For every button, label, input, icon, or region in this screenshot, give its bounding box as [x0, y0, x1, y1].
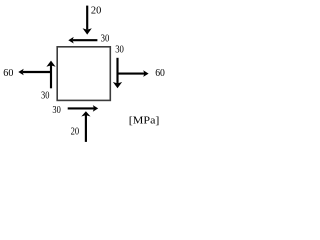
bottom shear arrow (right, 30 MPa) — [68, 105, 99, 112]
stress element square — [57, 47, 110, 101]
top shear arrow (left, 30 MPa) — [68, 37, 97, 44]
bottom normal stress arrow (up, 20 MPa) — [81, 111, 90, 142]
svg-text:20: 20 — [71, 125, 80, 137]
svg-text:60: 60 — [3, 67, 14, 79]
svg-text:60: 60 — [155, 67, 165, 79]
svg-text:30: 30 — [101, 33, 110, 45]
svg-text:30: 30 — [52, 104, 61, 116]
left normal stress arrow (left, 60 MPa) — [18, 69, 51, 76]
right normal stress arrow (right, 60 MPa) — [118, 70, 149, 77]
svg-text:30: 30 — [115, 44, 124, 56]
right shear arrow (down along right face, 30 MPa) — [113, 58, 122, 88]
top normal stress arrow (down, 20 MPa) — [83, 6, 92, 35]
svg-text:[MPa]: [MPa] — [129, 115, 160, 127]
left shear arrow (up along left face, 30 MPa) — [46, 61, 55, 89]
svg-text:30: 30 — [41, 90, 50, 102]
svg-text:20: 20 — [91, 4, 102, 16]
